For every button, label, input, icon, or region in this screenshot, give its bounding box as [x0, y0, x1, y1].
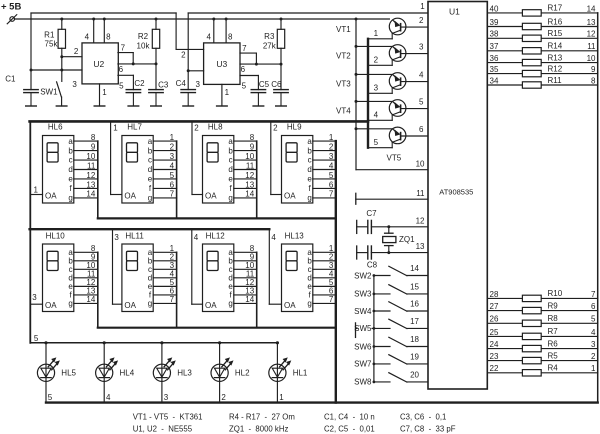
svg-text:5: 5: [374, 138, 379, 147]
svg-text:b: b: [307, 146, 312, 155]
svg-text:10: 10: [416, 159, 425, 168]
svg-text:7: 7: [170, 295, 175, 304]
svg-text:c: c: [69, 156, 73, 165]
svg-text:12: 12: [416, 216, 425, 225]
svg-text:4: 4: [194, 233, 199, 242]
svg-text:HL3: HL3: [177, 369, 192, 378]
svg-text:R13: R13: [548, 53, 563, 62]
svg-text:2: 2: [74, 47, 79, 56]
svg-text:26: 26: [490, 315, 499, 324]
svg-text:AT908535: AT908535: [439, 188, 473, 197]
svg-text:HL10: HL10: [46, 231, 66, 240]
svg-text:3: 3: [591, 340, 596, 349]
svg-text:10: 10: [587, 54, 596, 63]
svg-text:VT1 - VT5 - KT361: VT1 - VT5 - KT361: [133, 412, 203, 421]
svg-text:SW6: SW6: [354, 342, 372, 351]
svg-text:16: 16: [410, 300, 419, 309]
svg-text:HL12: HL12: [206, 231, 226, 240]
svg-text:13: 13: [416, 242, 425, 251]
svg-text:VT4: VT4: [336, 107, 351, 116]
svg-text:OA: OA: [45, 301, 57, 310]
svg-text:11: 11: [87, 161, 96, 170]
svg-text:25: 25: [490, 328, 499, 337]
svg-text:SW8: SW8: [354, 378, 372, 387]
svg-text:a: a: [228, 137, 233, 146]
svg-text:c: c: [308, 156, 312, 165]
svg-text:7: 7: [121, 43, 126, 52]
svg-text:39: 39: [490, 18, 499, 27]
svg-text:a: a: [68, 137, 73, 146]
svg-text:4: 4: [329, 161, 334, 170]
svg-text:R5: R5: [548, 351, 559, 360]
svg-text:2: 2: [273, 123, 278, 132]
svg-text:C5: C5: [259, 80, 270, 89]
svg-text:SW2: SW2: [354, 271, 372, 280]
svg-text:e: e: [68, 175, 73, 184]
svg-text:2: 2: [170, 142, 175, 151]
svg-text:4: 4: [419, 71, 424, 80]
svg-text:d: d: [307, 165, 311, 174]
svg-text:19: 19: [410, 353, 419, 362]
svg-text:1: 1: [102, 88, 107, 97]
svg-text:11: 11: [587, 42, 596, 51]
svg-text:C2, C5 - 0,01: C2, C5 - 0,01: [324, 425, 375, 434]
svg-text:1: 1: [34, 185, 39, 194]
svg-text:8: 8: [591, 76, 596, 85]
svg-text:C1: C1: [5, 75, 16, 84]
svg-text:12: 12: [86, 171, 95, 180]
svg-text:OA: OA: [284, 191, 296, 200]
svg-text:3: 3: [114, 233, 119, 242]
svg-text:14: 14: [86, 190, 95, 199]
svg-text:g: g: [228, 299, 232, 308]
svg-text:g: g: [68, 299, 72, 308]
svg-text:7: 7: [591, 290, 596, 299]
svg-text:OA: OA: [45, 191, 57, 200]
svg-text:35: 35: [490, 65, 499, 74]
svg-text:4: 4: [374, 111, 379, 120]
svg-text:R6: R6: [548, 339, 559, 348]
svg-text:27: 27: [490, 302, 499, 311]
svg-text:e: e: [148, 175, 153, 184]
svg-text:R3: R3: [264, 32, 275, 41]
svg-text:5: 5: [419, 98, 424, 107]
svg-text:1: 1: [225, 88, 230, 97]
svg-text:14: 14: [245, 190, 254, 199]
svg-text:1: 1: [329, 133, 334, 142]
svg-text:g: g: [228, 194, 232, 203]
svg-text:10: 10: [245, 152, 254, 161]
svg-text:3: 3: [195, 80, 200, 89]
svg-text:2: 2: [221, 393, 226, 402]
svg-text:13: 13: [86, 180, 95, 189]
svg-text:HL6: HL6: [48, 122, 63, 131]
svg-text:4: 4: [85, 33, 90, 42]
svg-text:OA: OA: [205, 301, 217, 310]
svg-text:1: 1: [420, 2, 425, 11]
svg-text:U3: U3: [216, 59, 227, 69]
svg-text:6: 6: [591, 302, 596, 311]
svg-text:38: 38: [490, 30, 499, 39]
svg-text:U2: U2: [93, 59, 104, 69]
svg-text:14: 14: [86, 295, 95, 304]
svg-text:R2: R2: [138, 32, 149, 41]
svg-text:HL9: HL9: [287, 122, 302, 131]
svg-text:b: b: [228, 146, 233, 155]
svg-text:+ 5В: + 5В: [1, 2, 21, 13]
svg-text:HL2: HL2: [235, 369, 250, 378]
svg-text:R1: R1: [44, 30, 55, 39]
svg-text:HL7: HL7: [127, 122, 142, 131]
svg-text:R4 - R17 - 27 Om: R4 - R17 - 27 Om: [229, 412, 295, 421]
svg-text:7: 7: [329, 190, 334, 199]
svg-text:5: 5: [48, 393, 53, 402]
svg-text:5: 5: [591, 315, 596, 324]
svg-text:HL11: HL11: [125, 231, 144, 240]
svg-text:1: 1: [374, 29, 379, 38]
svg-text:17: 17: [410, 317, 419, 326]
svg-text:U1: U1: [449, 7, 460, 17]
svg-text:8: 8: [106, 33, 111, 42]
svg-text:9: 9: [591, 65, 596, 74]
svg-text:C7, C8 - 33 pF: C7, C8 - 33 pF: [400, 425, 456, 434]
svg-text:OA: OA: [124, 301, 136, 310]
svg-text:14: 14: [245, 295, 254, 304]
svg-text:VT5: VT5: [387, 154, 402, 163]
svg-text:2: 2: [374, 56, 379, 65]
svg-text:10: 10: [86, 152, 95, 161]
svg-text:13: 13: [245, 180, 254, 189]
svg-text:14: 14: [587, 4, 596, 13]
svg-text:3: 3: [72, 80, 77, 89]
svg-text:3: 3: [170, 152, 175, 161]
svg-text:SW7: SW7: [354, 360, 372, 369]
svg-text:R17: R17: [548, 4, 563, 13]
svg-text:8: 8: [228, 33, 233, 42]
svg-text:1: 1: [279, 393, 284, 402]
svg-text:5: 5: [119, 81, 124, 90]
svg-text:R8: R8: [548, 314, 559, 323]
svg-text:SW1: SW1: [40, 87, 58, 96]
svg-text:23: 23: [490, 352, 499, 361]
svg-text:8: 8: [91, 133, 96, 142]
svg-text:9: 9: [250, 142, 255, 151]
svg-text:28: 28: [490, 290, 499, 299]
svg-text:HL13: HL13: [285, 231, 305, 240]
svg-text:12: 12: [245, 171, 254, 180]
svg-text:5: 5: [170, 171, 175, 180]
svg-text:R9: R9: [548, 301, 559, 310]
svg-text:SW4: SW4: [354, 307, 372, 316]
svg-text:e: e: [228, 175, 233, 184]
svg-text:75k: 75k: [45, 40, 59, 49]
svg-text:U1, U2 - NE555: U1, U2 - NE555: [133, 425, 193, 434]
svg-text:6: 6: [419, 125, 424, 134]
svg-text:HL8: HL8: [208, 122, 223, 131]
svg-text:11: 11: [416, 189, 425, 198]
svg-text:18: 18: [410, 335, 419, 344]
svg-text:7: 7: [329, 295, 334, 304]
svg-text:4: 4: [170, 161, 175, 170]
svg-text:13: 13: [587, 18, 596, 27]
svg-text:C6: C6: [271, 80, 282, 89]
svg-text:6: 6: [241, 65, 246, 74]
svg-text:b: b: [68, 146, 73, 155]
svg-text:2: 2: [194, 123, 199, 132]
svg-text:14: 14: [410, 264, 419, 273]
svg-text:3: 3: [164, 393, 169, 402]
svg-text:27k: 27k: [263, 42, 277, 51]
svg-text:a: a: [148, 137, 153, 146]
svg-text:R14: R14: [548, 42, 563, 51]
svg-text:34: 34: [490, 76, 499, 85]
svg-text:HL4: HL4: [120, 369, 135, 378]
svg-text:VT2: VT2: [336, 52, 351, 61]
svg-text:10k: 10k: [137, 42, 151, 51]
svg-text:12: 12: [587, 30, 596, 39]
svg-text:4: 4: [271, 233, 276, 242]
svg-text:a: a: [307, 137, 312, 146]
svg-text:40: 40: [490, 4, 499, 13]
svg-text:3: 3: [419, 43, 424, 52]
svg-text:OA: OA: [284, 301, 296, 310]
svg-text:20: 20: [410, 371, 419, 380]
svg-text:7: 7: [170, 190, 175, 199]
svg-text:4: 4: [106, 393, 111, 402]
svg-text:VT3: VT3: [336, 80, 351, 89]
svg-text:1: 1: [170, 133, 175, 142]
svg-text:C8: C8: [367, 261, 378, 270]
svg-text:C3: C3: [158, 80, 169, 89]
svg-text:SW5: SW5: [354, 324, 372, 333]
svg-text:22: 22: [490, 364, 499, 373]
svg-text:3: 3: [374, 84, 379, 93]
svg-text:15: 15: [410, 283, 419, 292]
svg-text:ZQ1 - 8000 kHz: ZQ1 - 8000 kHz: [229, 425, 288, 434]
svg-text:6: 6: [170, 180, 175, 189]
svg-text:c: c: [148, 156, 152, 165]
svg-text:37: 37: [490, 42, 499, 51]
svg-text:R7: R7: [548, 327, 559, 336]
svg-text:5: 5: [242, 81, 247, 90]
svg-text:36: 36: [490, 54, 499, 63]
svg-text:g: g: [148, 299, 152, 308]
svg-text:9: 9: [91, 142, 96, 151]
svg-text:g: g: [307, 194, 311, 203]
svg-text:g: g: [148, 194, 152, 203]
svg-text:ZQ1: ZQ1: [399, 235, 415, 244]
svg-text:HL1: HL1: [293, 369, 308, 378]
svg-text:SW3: SW3: [354, 290, 372, 299]
svg-text:OA: OA: [124, 191, 136, 200]
svg-text:R4: R4: [548, 364, 559, 373]
svg-text:8: 8: [250, 133, 255, 142]
svg-text:4: 4: [206, 33, 211, 42]
svg-text:C1, C4 - 10 n: C1, C4 - 10 n: [324, 412, 375, 421]
svg-text:5: 5: [34, 334, 39, 343]
svg-text:OA: OA: [205, 191, 217, 200]
svg-text:g: g: [307, 299, 311, 308]
svg-text:d: d: [68, 165, 72, 174]
svg-text:5: 5: [329, 171, 334, 180]
svg-text:1: 1: [591, 364, 596, 373]
svg-text:e: e: [307, 175, 312, 184]
svg-text:VT1: VT1: [336, 25, 351, 34]
svg-text:24: 24: [490, 340, 499, 349]
svg-text:6: 6: [119, 65, 124, 74]
svg-text:C2: C2: [134, 79, 145, 88]
svg-text:4: 4: [591, 328, 596, 337]
svg-text:d: d: [148, 165, 152, 174]
svg-text:C3, C6 - 0,1: C3, C6 - 0,1: [400, 412, 446, 421]
svg-text:7: 7: [242, 44, 247, 53]
svg-text:R16: R16: [548, 17, 563, 26]
svg-text:2: 2: [591, 352, 596, 361]
svg-text:2: 2: [181, 50, 186, 59]
svg-text:HL5: HL5: [61, 369, 76, 378]
svg-text:C7: C7: [366, 209, 377, 218]
svg-text:R10: R10: [548, 289, 563, 298]
svg-text:g: g: [68, 194, 72, 203]
svg-text:d: d: [228, 165, 232, 174]
svg-text:3: 3: [329, 152, 334, 161]
svg-text:2: 2: [329, 142, 334, 151]
svg-text:11: 11: [246, 161, 255, 170]
svg-text:b: b: [148, 146, 153, 155]
svg-text:6: 6: [329, 180, 334, 189]
svg-text:R12: R12: [548, 64, 563, 73]
svg-text:2: 2: [419, 16, 424, 25]
svg-text:R11: R11: [548, 76, 563, 85]
svg-text:c: c: [229, 156, 233, 165]
svg-text:R15: R15: [548, 29, 563, 38]
svg-text:C4: C4: [176, 79, 187, 88]
svg-text:3: 3: [32, 293, 37, 302]
svg-text:1: 1: [113, 123, 118, 132]
